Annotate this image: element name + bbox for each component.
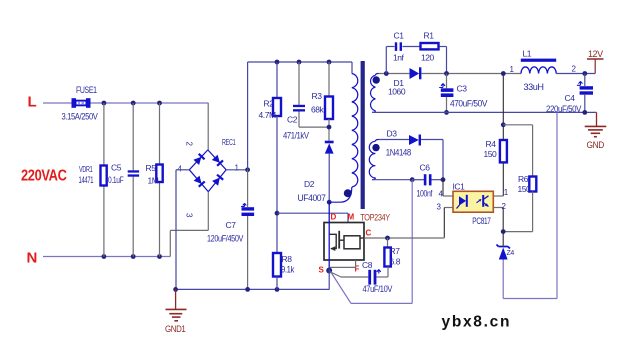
svg-text:R6: R6 — [518, 174, 529, 184]
svg-text:33uH: 33uH — [524, 82, 544, 92]
node junction N-R5 — [157, 254, 162, 259]
node bias return — [410, 177, 415, 182]
wire bridge pin 1 to DC+ node — [226, 169, 247, 171]
wire R2 column upper — [276, 62, 278, 98]
resistor R4 150 — [500, 140, 507, 162]
secondary 1 polarity dot — [373, 76, 380, 83]
svg-text:R3: R3 — [312, 91, 323, 101]
svg-text:471/1kV: 471/1kV — [283, 131, 309, 141]
node M divider junction — [275, 211, 280, 216]
wire opto pin2 down — [493, 207, 503, 209]
resistor R1 120 — [421, 43, 439, 49]
node bias supply — [441, 177, 446, 182]
transformer primary winding — [352, 74, 358, 188]
wire bridge pin 4 to ground rail — [176, 169, 189, 171]
svg-text:1M: 1M — [148, 176, 159, 186]
svg-text:REC1: REC1 — [222, 137, 236, 147]
IC1 phototransistor symbol — [482, 195, 484, 207]
wire secondary 1 top to D1 — [379, 73, 410, 75]
svg-text:C3: C3 — [457, 84, 468, 94]
svg-text:R5: R5 — [146, 163, 157, 173]
svg-text:C1: C1 — [394, 31, 405, 41]
node S — [326, 268, 332, 274]
resistor R3 68k — [325, 97, 333, 120]
TOP234Y internal MOSFET — [329, 234, 336, 248]
wire feedback riser from output node — [502, 74, 504, 141]
wire R5 column — [159, 103, 161, 165]
resistor R7 6.8 — [387, 238, 389, 248]
node top-rail C2 — [297, 60, 302, 65]
capacitor C5 0.1uF — [128, 170, 139, 172]
wire DC+ riser to top rail — [247, 62, 249, 170]
secondary 2 polarity dot — [372, 144, 379, 151]
svg-text:100nf: 100nf — [417, 189, 433, 199]
fuse FUSE1 — [72, 98, 77, 108]
transformer secondary 1 winding — [370, 75, 375, 110]
node C4 ground — [582, 110, 587, 115]
node C-R7 — [385, 236, 390, 241]
svg-text:0.1uF: 0.1uF — [108, 175, 124, 185]
node top-rail R2 — [275, 60, 280, 65]
svg-text:D2: D2 — [304, 179, 315, 189]
diode D2 UF4007 (cathode up) — [325, 141, 334, 144]
svg-text:FUSE1: FUSE1 — [76, 85, 97, 95]
IC1 LED symbol — [459, 196, 466, 205]
svg-text:6.8: 6.8 — [390, 257, 401, 267]
svg-text:M: M — [348, 213, 355, 222]
wire bias winding top to D3 — [379, 139, 410, 141]
wire to opto pin 4 — [442, 180, 444, 196]
node clamp junction — [328, 119, 330, 141]
svg-text:C7: C7 — [226, 220, 237, 230]
capacitor C2 471/1kV — [293, 105, 305, 107]
wire primary bottom tail to drain node — [329, 187, 352, 202]
svg-text:150: 150 — [484, 149, 498, 159]
node top-rail R3 — [327, 60, 332, 65]
wire L line after fuse — [91, 102, 209, 104]
svg-text:R7: R7 — [390, 246, 401, 256]
wire secondary ground rail — [372, 111, 595, 113]
wire M-pin feed — [277, 212, 348, 214]
wire VDR1 column — [103, 103, 105, 166]
wire S-F tie — [329, 266, 355, 268]
diode D3 1N4148 — [409, 135, 419, 145]
svg-text:470uF/50V: 470uF/50V — [450, 99, 487, 109]
node rail-R8 — [275, 287, 280, 292]
svg-text:IC1: IC1 — [453, 182, 466, 192]
svg-text:120uF/450V: 120uF/450V — [207, 234, 243, 244]
resistor R8 9.1k — [273, 253, 281, 277]
node DC+ at bridge output — [245, 167, 250, 172]
svg-text:C6: C6 — [420, 163, 431, 173]
svg-text:TOP234Y: TOP234Y — [360, 213, 390, 223]
wire S to bottom rail — [328, 269, 330, 290]
wire C2 bottom jog to R3/D2 node — [298, 112, 300, 128]
wire Z4 return loop to ground rail — [502, 260, 504, 299]
wire L1 pin2 to 12V node — [556, 73, 595, 75]
snubber loop wires — [385, 47, 387, 74]
wire C7 column — [247, 170, 249, 207]
wire L to bridge pin 2 — [207, 103, 209, 150]
capacitor C6 100nf — [412, 179, 424, 181]
resistor R2 4.7M — [273, 98, 281, 116]
node junction L-R5 — [157, 101, 162, 106]
svg-text:Z4: Z4 — [507, 250, 515, 257]
svg-text:R4: R4 — [486, 139, 497, 149]
svg-text:1nf: 1nf — [393, 53, 405, 63]
svg-text:C2: C2 — [287, 115, 298, 125]
resistor R6 150 — [529, 177, 536, 192]
svg-text:VDR1: VDR1 — [79, 164, 93, 174]
svg-text:D3: D3 — [387, 129, 398, 139]
capacitor C7 120uF/450V (electrolytic) — [241, 203, 246, 206]
node D1 output / C3 — [444, 71, 449, 76]
wire C2 column — [298, 62, 300, 105]
node rail-left corner — [173, 287, 178, 292]
node junction N-VDR1 — [102, 254, 107, 259]
svg-text:C: C — [366, 229, 372, 238]
node 12V / C4 — [582, 71, 587, 76]
node junction L-C5 — [131, 101, 136, 106]
svg-text:ybx8.cn: ybx8.cn — [442, 314, 512, 331]
wire N line — [43, 256, 170, 258]
primary polarity dot — [344, 189, 352, 197]
svg-text:14471: 14471 — [79, 175, 94, 185]
wire top rail corner down to primary — [351, 62, 353, 74]
capacitor C8 47uF/10V (electrolytic) — [332, 273, 342, 278]
varistor VDR1 14471 — [101, 166, 107, 186]
svg-text:68k: 68k — [311, 105, 325, 115]
transformer secondary 2 (bias) winding — [369, 141, 375, 178]
ground GND (output) — [595, 111, 596, 113]
svg-text:3: 3 — [185, 213, 194, 218]
node zener junction — [501, 229, 506, 234]
wire R6 to zener row — [532, 192, 534, 232]
svg-text:9.1k: 9.1k — [281, 265, 295, 275]
svg-text:L: L — [28, 94, 37, 111]
svg-text:PC817: PC817 — [472, 216, 491, 226]
node drain junction — [327, 200, 332, 205]
svg-text:L1: L1 — [523, 49, 532, 59]
wire D2 anode to drain node — [328, 154, 330, 203]
optocoupler IC1 PC817 — [453, 191, 493, 212]
wire opto pin 3 to control line — [444, 207, 453, 209]
wire R8 to bottom rail — [276, 277, 278, 290]
svg-text:R8: R8 — [282, 254, 293, 264]
wire D3 cathode to opto pin4 column — [421, 139, 443, 141]
wire C5 column — [132, 103, 134, 170]
svg-text:2: 2 — [185, 142, 194, 147]
node snubber left tap — [384, 71, 389, 76]
svg-text:GND: GND — [587, 140, 605, 150]
svg-text:120: 120 — [421, 53, 435, 63]
svg-text:R1: R1 — [424, 31, 435, 41]
wire S to bias return loop — [331, 272, 352, 304]
svg-text:C8: C8 — [362, 260, 373, 270]
wire bias return to source loop — [411, 180, 413, 304]
inductor L1 33uH — [521, 59, 556, 62]
svg-text:220VAC: 220VAC — [21, 168, 67, 185]
wire top DC+ rail — [248, 61, 352, 63]
wire D1 cathode to output node — [421, 73, 521, 75]
svg-text:D: D — [331, 213, 337, 222]
svg-text:4.7M: 4.7M — [259, 110, 276, 120]
capacitor C4 220uF/50V (electrolytic) — [584, 74, 586, 87]
wire L line to fuse — [43, 102, 72, 104]
wire C pin row — [364, 237, 444, 239]
wire R2 column lower to M node — [276, 116, 278, 253]
svg-text:N: N — [27, 250, 37, 267]
svg-text:R2: R2 — [264, 99, 275, 109]
diode D1 1060 — [410, 68, 420, 79]
wire R3 column upper — [328, 62, 330, 97]
svg-text:150: 150 — [518, 184, 532, 194]
wire bias winding bottom — [372, 179, 412, 181]
svg-text:UF4007: UF4007 — [298, 193, 326, 203]
svg-text:3.15A/250V: 3.15A/250V — [62, 112, 98, 122]
ground GND1 — [175, 289, 177, 309]
node feedback split — [501, 122, 506, 127]
resistor R5 1M — [156, 165, 162, 183]
transformer core — [361, 61, 365, 209]
svg-text:GND1: GND1 — [165, 324, 186, 334]
zener Z4 — [502, 232, 504, 246]
svg-text:C5: C5 — [111, 163, 122, 173]
node output to L1 and feedback — [501, 71, 506, 76]
svg-text:1060: 1060 — [388, 87, 406, 97]
capacitor C1 1nf — [395, 42, 397, 51]
wire R4 to opto pin1 — [502, 162, 504, 196]
IC U1 TOP234Y body — [324, 223, 364, 261]
svg-text:12V: 12V — [588, 49, 603, 59]
bridge rectifier REC1 — [189, 150, 208, 170]
svg-text:1N4148: 1N4148 — [386, 148, 411, 158]
node junction N-C5 — [131, 254, 136, 259]
svg-text:220uF/50V: 220uF/50V — [546, 104, 581, 114]
wire bridge pin 3 to N jog — [207, 192, 209, 231]
wire branch to R6 — [503, 124, 532, 126]
svg-text:C4: C4 — [565, 93, 576, 103]
svg-text:47uF/10V: 47uF/10V — [363, 284, 393, 294]
node junction L-VDR1 — [102, 101, 107, 106]
capacitor C3 470uF/50V (electrolytic) — [446, 74, 448, 89]
wire drain pin into chip — [328, 202, 330, 269]
wire primary-side bottom rail — [176, 288, 330, 290]
node rail-C7 — [245, 287, 250, 292]
node C3 ground — [444, 110, 449, 115]
